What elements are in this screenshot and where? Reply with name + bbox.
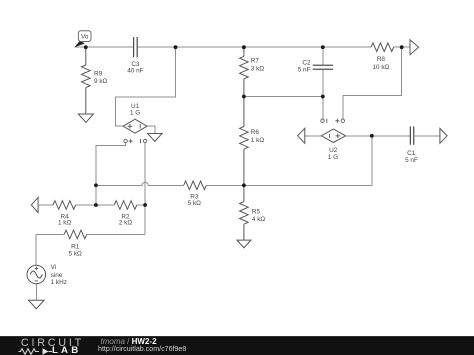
wire U1 right lead to ground — [147, 126, 155, 133]
ground below R9 — [78, 114, 93, 122]
V1 sine wave — [30, 271, 42, 278]
ground below R5 — [237, 240, 251, 248]
resistor R6 — [240, 97, 249, 186]
wire U2 control plus up and over to output port branch — [343, 47, 402, 119]
node dot at Vo / R9 top — [84, 45, 88, 49]
wire lower net with hop over U1 control vertical — [96, 182, 184, 185]
resistor R8 — [371, 43, 394, 52]
wire U1 control plus down-left to node — [96, 143, 126, 205]
ground at U1 — [148, 134, 163, 142]
ground below V1 — [29, 300, 45, 309]
svg-text:9 kΩ: 9 kΩ — [94, 78, 108, 85]
U2 plus sign inside — [336, 134, 341, 139]
node dot top wire at R7 — [242, 45, 246, 49]
node dot C2 bottom — [321, 95, 325, 99]
svg-text:R1: R1 — [71, 243, 80, 250]
wire U1 control minus down long vertical — [144, 143, 146, 234]
svg-text:4 kΩ: 4 kΩ — [252, 216, 266, 223]
svg-text:2 kΩ: 2 kΩ — [119, 220, 133, 227]
V1 minus sign — [35, 280, 38, 282]
svg-text:10 kΩ: 10 kΩ — [372, 64, 389, 71]
svg-text:U2: U2 — [329, 147, 338, 154]
svg-text:R7: R7 — [251, 57, 260, 64]
wire R8 right to output port — [394, 46, 410, 48]
footer text — [101, 338, 157, 346]
logo resistor squiggle — [18, 347, 56, 355]
op source U2 diamond — [321, 129, 345, 142]
resistor R3 — [184, 181, 207, 190]
port output top right — [410, 40, 419, 55]
svg-text:Vi: Vi — [51, 264, 57, 271]
terminal U1 control plus — [124, 139, 127, 142]
wire U2 right lead to C1 — [346, 135, 411, 137]
svg-text:1 kHz: 1 kHz — [51, 279, 67, 286]
node dot lower net at R5/R6 — [242, 184, 246, 188]
U1 control plus sign — [129, 139, 133, 143]
svg-text:3 kΩ: 3 kΩ — [251, 66, 265, 73]
wire R2 right to vertical — [137, 204, 145, 206]
terminal U1 control minus — [143, 139, 146, 142]
node dot top wire at U1 branch — [174, 45, 178, 49]
wire top net from C3 right plate to R8 left — [137, 46, 371, 48]
node dot lower net left — [94, 183, 98, 187]
port input far left — [31, 197, 38, 212]
wire U2 left lead to input port — [305, 135, 321, 137]
svg-text:5 nF: 5 nF — [298, 67, 311, 74]
wire V1 to ground — [35, 284, 37, 300]
U2 control minus sign — [326, 119, 328, 123]
wire R1 right to vertical — [87, 233, 145, 235]
svg-text:R5: R5 — [252, 209, 261, 216]
node dot U2 output branch — [370, 134, 374, 138]
svg-text:Vo: Vo — [81, 34, 89, 41]
U2 control plus sign — [335, 119, 339, 123]
wire lower net R3 right to U2 branch — [206, 184, 371, 186]
resistor R7 — [240, 47, 249, 96]
wire port to R4 — [38, 204, 53, 206]
svg-text:1 G: 1 G — [328, 154, 338, 161]
logo LAB — [52, 346, 81, 355]
wire top net Vo from flag tip to C3 left plate — [75, 46, 134, 48]
node dot R7 bottom — [242, 95, 246, 99]
svg-text:R6: R6 — [251, 129, 260, 136]
U2 minus sign inside (rotated) — [329, 134, 331, 138]
node dot R4/R2 net at U1 control branch — [94, 203, 98, 207]
resistor R1 — [64, 230, 87, 239]
wire mid net R7 bottom to C2 bottom — [244, 96, 323, 98]
op source U1 diamond — [123, 119, 147, 133]
U1 plus sign inside — [128, 124, 133, 129]
footer bar — [0, 336, 474, 355]
terminal U2 control plus — [341, 119, 344, 122]
svg-text:C2: C2 — [302, 60, 311, 67]
svg-text:1 G: 1 G — [130, 110, 140, 117]
svg-text:5 nF: 5 nF — [405, 157, 418, 164]
resistor R5 — [240, 185, 249, 240]
logo CIRCUIT — [21, 338, 84, 349]
flag Vo — [74, 31, 91, 48]
svg-text:5 kΩ: 5 kΩ — [188, 200, 202, 207]
wire R4 to R2 — [76, 204, 115, 206]
svg-text:40 nF: 40 nF — [127, 68, 143, 75]
wire U1 output left lead up to top net — [115, 47, 175, 126]
wire R1 net left vertical to V1 — [35, 234, 37, 265]
svg-text:R8: R8 — [377, 56, 386, 63]
V1 plus sign — [35, 267, 38, 270]
U1 minus sign inside (rotated) — [139, 124, 141, 128]
wire R1 horizontal left segment — [36, 233, 64, 235]
wire U2 output down to lower net — [371, 136, 373, 186]
svg-text:5 kΩ: 5 kΩ — [69, 250, 83, 257]
capacitor C2 — [313, 47, 333, 119]
wire C1 right to port — [414, 135, 440, 137]
node dot top wire at C2 — [321, 45, 325, 49]
capacitor C3 — [134, 37, 138, 57]
node dot top wire at output port branch — [400, 45, 404, 49]
node dot R2 right — [143, 203, 147, 207]
svg-text:R9: R9 — [94, 71, 103, 78]
terminal U2 control minus — [321, 119, 324, 122]
port right of C1 — [440, 128, 447, 143]
resistor R2 — [114, 201, 137, 210]
svg-text:C1: C1 — [407, 150, 416, 157]
svg-text:1 kΩ: 1 kΩ — [251, 137, 265, 144]
source V1 sine — [27, 265, 46, 284]
svg-text:1 kΩ: 1 kΩ — [58, 220, 72, 227]
port left at U2 — [298, 128, 305, 143]
resistor R9 — [82, 47, 91, 114]
capacitor C1 — [410, 126, 413, 144]
U1 control minus sign — [140, 139, 142, 143]
resistor R4 — [53, 201, 76, 210]
